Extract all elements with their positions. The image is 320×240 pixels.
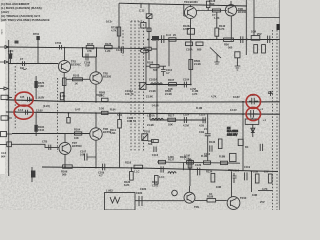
transistor TR10 (227, 197, 240, 210)
svg-text:C115: C115 (199, 113, 206, 117)
capacitor TP2 (26, 110, 32, 115)
svg-text:R737: R737 (87, 42, 94, 46)
wire R106 stub (146, 65, 166, 67)
svg-text:C920: C920 (136, 191, 143, 195)
capacitor C7 curve (23, 68, 27, 69)
svg-text:1K: 1K (209, 192, 212, 196)
wire left input vertical (8, 40, 10, 176)
resistor R135 (255, 174, 259, 183)
transistor TR7 (59, 142, 71, 154)
resistor R169 (63, 165, 73, 168)
node dot (246, 39, 248, 41)
capacitor C169 (86, 54, 88, 61)
svg-text:560: 560 (62, 173, 67, 177)
ground symbol 2 (214, 54, 219, 64)
svg-text:4.55: 4.55 (199, 124, 205, 128)
capacitor C130 (161, 35, 164, 43)
paper background (0, 0, 280, 210)
svg-text:21.9K: 21.9K (194, 62, 201, 66)
svg-text:R107: R107 (168, 78, 175, 82)
wire TR4 emitter up (190, 5, 192, 7)
capacitor C7 (20, 61, 27, 66)
svg-text:P102: P102 (144, 130, 151, 134)
resistor R702 (9, 54, 13, 59)
svg-text:25V: 25V (257, 32, 262, 36)
resistor R140 (145, 47, 151, 50)
wire main bus B+ (6, 100, 280, 102)
svg-text:(0.22): (0.22) (43, 104, 50, 108)
svg-text:R.84: R.84 (110, 108, 116, 112)
svg-text:(AB TWO) VOLUME) PUISSANCE: (AB TWO) VOLUME) PUISSANCE (1, 18, 50, 22)
tiny component labels (1, 0, 273, 209)
resistor R110 label box (152, 140, 159, 143)
capacitor C121b (161, 166, 163, 172)
wire main bus B- (6, 112, 280, 114)
resistor R134 (211, 173, 215, 182)
svg-text:R.1M: R.1M (201, 154, 207, 158)
node junction x38 (37, 40, 39, 64)
capacitor C120 (197, 168, 199, 176)
svg-text:C113: C113 (152, 153, 159, 157)
capacitor TP3 (249, 98, 258, 105)
dashed shield lines center (15, 21, 277, 210)
resistor R141 series (169, 38, 176, 41)
connector box J4 (1, 116, 8, 120)
svg-text:1.2K: 1.2K (105, 49, 111, 53)
capacitor C118 (233, 173, 237, 183)
svg-text:C114: C114 (183, 113, 190, 117)
resistor R581 series bus2 (102, 111, 109, 114)
svg-text:500: 500 (153, 68, 158, 72)
svg-text:R118: R118 (125, 161, 132, 165)
wire TR5 base link (66, 78, 90, 80)
svg-text:10M: 10M (251, 30, 256, 34)
box C28 (235, 52, 240, 58)
wire TR6 collector chain (190, 40, 192, 85)
svg-text:BC550: BC550 (103, 75, 112, 79)
svg-text:R106: R106 (147, 61, 154, 65)
svg-text:L101A: L101A (147, 114, 155, 118)
svg-text:R.8M: R.8M (219, 155, 225, 159)
svg-text:BC550C: BC550C (71, 63, 81, 67)
red annotation ellipse left top (15, 92, 33, 106)
svg-text:C.12: C.12 (139, 9, 145, 13)
wire stub (140, 3, 142, 8)
capacitor C114 (184, 117, 186, 123)
svg-text:R105: R105 (73, 74, 80, 78)
right edge rule (278, 0, 280, 210)
svg-text:8.2K: 8.2K (124, 183, 130, 187)
dashed line C (134, 21, 136, 151)
svg-text:S 2M: S 2M (0, 29, 2, 34)
svg-text:10M: 10M (252, 193, 257, 197)
capacitor C116 (210, 145, 212, 151)
wire mid feed vertical (148, 18, 150, 60)
svg-text:C7B: C7B (42, 140, 47, 144)
resistor R128 (207, 1, 210, 7)
connector J5 (0, 144, 7, 146)
svg-text:25V: 25V (264, 170, 269, 174)
switch box S1 (152, 36, 159, 41)
resistor R136 (268, 174, 272, 183)
capacitor C115 (203, 117, 205, 123)
svg-text:C344: C344 (38, 128, 45, 132)
capacitor TP1 (28, 97, 34, 102)
svg-text:150K: 150K (38, 84, 44, 88)
svg-text:11.0: 11.0 (166, 33, 171, 37)
resistor R58A (186, 42, 193, 46)
resistor R584 (189, 60, 193, 70)
wire R111 stub (119, 114, 121, 168)
transistor TR3 (58, 60, 70, 72)
capacitor C171 below bus2 (68, 113, 70, 117)
resistor R111 (118, 120, 122, 129)
capacitor C1B (205, 114, 211, 161)
svg-text:C10A: C10A (186, 48, 193, 52)
wire TR4 base left (184, 4, 187, 16)
wire TR7 emitter (64, 154, 66, 167)
svg-text:R125: R125 (105, 42, 112, 46)
dashed line right B (276, 30, 278, 210)
wire R142 vertical (216, 12, 218, 40)
wire mid vertical (156, 41, 158, 120)
svg-text:4.7: 4.7 (166, 71, 170, 75)
svg-text:R134: R134 (206, 170, 213, 174)
svg-text:R104: R104 (74, 128, 81, 132)
wire TR3 collector (64, 48, 66, 61)
resistor R117 (168, 118, 176, 121)
svg-text:C104: C104 (183, 78, 190, 82)
scan shading blotches (0, 3, 285, 205)
capacitor C121 (121, 47, 123, 54)
bottom box L903 (105, 193, 136, 211)
svg-text:10M: 10M (216, 185, 221, 189)
resistor R125 (105, 46, 113, 49)
svg-text:R117: R117 (168, 114, 175, 118)
capacitor C25 (241, 36, 243, 43)
svg-text:1.1C: 1.1C (134, 170, 140, 174)
wire TR8 collector (95, 114, 97, 128)
svg-text:R133: R133 (209, 140, 216, 144)
dashed line left small (14, 66, 16, 130)
resistor R189 (207, 199, 216, 202)
capacitor C27 (268, 36, 270, 43)
resistor R103b (60, 93, 63, 100)
wire interstage (196, 10, 226, 12)
trimmer P101 (140, 83, 146, 90)
transistor TR6 (225, 5, 236, 16)
svg-text:C161: C161 (152, 184, 159, 188)
svg-text:0.5W: 0.5W (183, 27, 190, 31)
svg-text:4.7K: 4.7K (211, 95, 217, 99)
svg-text:10M: 10M (253, 170, 258, 174)
transistor TR5 (90, 72, 102, 84)
svg-text:1.1C: 1.1C (159, 175, 165, 179)
wire R128 stub (207, 8, 209, 11)
wire upper-right rail (151, 40, 280, 50)
resistor R139b (204, 161, 211, 164)
svg-text:1M: 1M (20, 66, 24, 70)
node dot (118, 46, 120, 48)
wire right drop (251, 172, 253, 193)
svg-text:21.9K: 21.9K (165, 92, 172, 96)
svg-text:4.7: 4.7 (99, 174, 103, 178)
svg-text:12.2: 12.2 (18, 108, 24, 112)
svg-text:500: 500 (148, 142, 153, 146)
node dot (190, 84, 192, 86)
transistor TR9 (184, 192, 195, 203)
resistor R129b (196, 42, 203, 46)
wire lower-left rail (12, 133, 90, 135)
dashed line E (143, 21, 145, 151)
svg-text:D4: D4 (245, 145, 249, 149)
inductor L104 (168, 172, 176, 174)
capacitor C703 (60, 45, 62, 50)
svg-text:C920: C920 (140, 187, 147, 191)
svg-text:C118: C118 (233, 169, 240, 173)
resistor R107 (169, 83, 177, 86)
wire stub bottom right (258, 190, 272, 192)
wire TR4 collector down (190, 18, 192, 39)
svg-text:R701: R701 (33, 32, 40, 36)
wire TR10 collector (231, 172, 233, 197)
tick mark (268, 91, 273, 96)
svg-text:25V: 25V (260, 200, 265, 204)
box RL1 (245, 119, 259, 124)
label mark (15, 41, 19, 44)
resistor R1B0 (155, 176, 159, 185)
wire upper-left rail (6, 47, 145, 49)
capacitor C109 (103, 164, 105, 171)
left margin tiny marks (0, 29, 2, 34)
connector J6 (1, 132, 7, 137)
svg-text:21.9K: 21.9K (149, 89, 156, 93)
wire to TR10 (216, 199, 227, 201)
capacitor C920 (139, 196, 142, 206)
resistor R142 (215, 28, 219, 36)
red annotation ellipse right bottom (246, 107, 260, 120)
svg-text:TR10: TR10 (240, 196, 247, 200)
transistor TR8 (90, 128, 102, 140)
wire TR9 out (195, 200, 207, 202)
wire mid branch lower (150, 119, 206, 121)
wire cap branch (83, 48, 97, 58)
svg-text:12.0V: 12.0V (230, 108, 237, 112)
resistor R104 (74, 132, 81, 135)
resistor R737 (86, 46, 94, 49)
svg-text:5.50: 5.50 (99, 107, 105, 111)
box D4 (238, 139, 243, 145)
svg-text:C119: C119 (244, 165, 251, 169)
ground symbol (235, 58, 241, 70)
svg-text:1.1K: 1.1K (184, 157, 190, 161)
wire TR5 collector (95, 57, 97, 72)
capacitor C113 (154, 147, 156, 153)
capacitor C110 (161, 66, 166, 76)
connector ring (172, 190, 178, 196)
svg-text:TR9: TR9 (194, 205, 199, 209)
diode D3 (251, 124, 255, 137)
transistor TR4 (185, 7, 197, 19)
node dot TR6c (230, 39, 232, 41)
svg-text:C103A: C103A (149, 78, 157, 82)
box TP5 (147, 28, 151, 32)
svg-text:C7: C7 (20, 57, 24, 61)
wire diag (210, 48, 221, 59)
svg-text:10K: 10K (8, 52, 13, 56)
svg-text:10M 25V: 10M 25V (227, 132, 238, 136)
wire top rail (119, 3, 247, 6)
svg-text:16.8V: 16.8V (38, 96, 45, 100)
capacitor C123 (260, 144, 262, 151)
capacitor C107 (85, 154, 97, 161)
connector J1 (0, 46, 9, 49)
dashed line right A (272, 30, 274, 210)
wire TR3 emitter (62, 73, 64, 102)
wire bottom bus (42, 167, 278, 172)
capacitor C119 (245, 172, 247, 180)
wire R575 stub (35, 76, 37, 99)
wire TR9 collector (189, 186, 191, 192)
capacitor C104 (184, 82, 191, 88)
wire trimmer vertical (145, 49, 147, 85)
capacitor TP4 (248, 110, 258, 118)
svg-text:1.2K: 1.2K (214, 16, 220, 20)
resistor R137 (159, 160, 166, 163)
branch y162 (157, 162, 240, 170)
svg-text:10M 7C: 10M 7C (127, 119, 136, 123)
electrolytic C108 (31, 167, 33, 182)
node dot (147, 39, 149, 41)
connector box J3 (1, 95, 8, 99)
svg-text:1300: 1300 (168, 155, 174, 159)
svg-text:21.9K: 21.9K (146, 95, 153, 99)
svg-text:R1B0: R1B0 (152, 180, 159, 184)
wire R702 stub (9, 50, 11, 64)
svg-text:10K: 10K (168, 123, 173, 127)
svg-text:BC160: BC160 (238, 10, 247, 14)
resistor R133 (218, 139, 222, 149)
svg-text:C703: C703 (55, 41, 62, 45)
wire right bus drop (242, 102, 244, 171)
dashed line A (122, 30, 124, 56)
svg-text:680: 680 (197, 48, 202, 52)
svg-text:560: 560 (228, 46, 233, 50)
svg-text:C121: C121 (116, 48, 123, 52)
wire R738 vertical (118, 3, 120, 47)
resistor R575 (34, 81, 37, 88)
wire to TR7 base (11, 144, 59, 147)
svg-text:4.7K: 4.7K (219, 27, 225, 31)
inductor L101 (151, 83, 163, 85)
wire R120 stub (130, 168, 132, 172)
svg-text:165: 165 (20, 95, 25, 99)
svg-text:1K: 1K (75, 82, 78, 86)
electrolytic C26 (251, 36, 260, 41)
resistor R580 series bus1 (102, 98, 109, 101)
corner blob (277, 24, 281, 30)
wire mid branch upper (146, 84, 191, 86)
resistor R132 (262, 45, 266, 53)
svg-text:12.6V: 12.6V (36, 109, 43, 113)
connector J2b (0, 61, 8, 64)
svg-text:R.1M: R.1M (196, 106, 202, 110)
trimmer P102 (142, 134, 148, 141)
resistor R184 (34, 125, 37, 132)
trimmer P103 (146, 14, 152, 19)
svg-text:0.47: 0.47 (75, 108, 81, 112)
resistor R127 (212, 9, 220, 12)
svg-text:TR4 BC360: TR4 BC360 (184, 0, 198, 4)
svg-text:4.7K: 4.7K (192, 92, 198, 96)
resistor R118 (134, 165, 143, 168)
red annotation ellipse left bottom (14, 105, 33, 119)
wire TR6 to right (237, 9, 247, 11)
wire R184 stub (35, 113, 37, 136)
text block DC (227, 126, 239, 136)
dashed line left tone (57, 78, 59, 152)
top-left notes text block (1, 2, 50, 22)
resistor R138 (187, 161, 194, 164)
svg-text:4.7M: 4.7M (183, 124, 189, 128)
svg-text:10K: 10K (74, 136, 79, 140)
svg-text:904: 904 (1, 155, 6, 159)
resistor R701 (36, 36, 39, 40)
capacitor C7B (49, 145, 51, 150)
resistor R126A (187, 29, 194, 35)
resistor R131 (254, 45, 258, 53)
box aux (141, 23, 146, 29)
connector J2 (0, 87, 8, 90)
svg-text:5.6K: 5.6K (110, 131, 116, 135)
svg-text:10K 7C: 10K 7C (125, 92, 134, 96)
wire TR8 emitter (95, 140, 97, 166)
dashed line D (138, 21, 140, 151)
svg-text:10M: 10M (80, 153, 85, 157)
svg-text:41.6: 41.6 (1, 151, 7, 155)
left margin white strip (0, 22, 5, 174)
svg-text:1.0K: 1.0K (60, 94, 66, 98)
wire right vertical 2 (253, 0, 255, 36)
dashed top bar (131, 20, 144, 22)
svg-text:4.7K: 4.7K (262, 187, 268, 191)
wire TP4 drop (251, 118, 253, 119)
svg-text:16.8V: 16.8V (233, 95, 240, 99)
svg-text:390: 390 (210, 2, 215, 6)
wire right mid vertical (168, 40, 170, 67)
wire TR6 collector (230, 16, 232, 40)
resistor R129 (188, 160, 192, 168)
svg-text:47K: 47K (87, 49, 92, 53)
resistor R106 (150, 65, 159, 68)
inductor L102 (152, 118, 164, 120)
resistor R56 (224, 38, 234, 41)
resistor R738 (117, 27, 120, 36)
lamp symbol (140, 49, 148, 53)
svg-text:75P: 75P (85, 64, 90, 68)
svg-text:L 903: L 903 (106, 189, 113, 193)
wire bottom link (135, 200, 184, 202)
svg-text:4.7K: 4.7K (111, 29, 117, 33)
dashed line B (130, 21, 132, 151)
wire TR5 emitter (95, 84, 97, 101)
box C117 (230, 153, 236, 161)
wire TR9 feed (189, 158, 191, 186)
resistor R140b (221, 161, 228, 164)
wire TR6 emitter (230, 1, 232, 5)
svg-text:R560: R560 (99, 91, 106, 95)
wire TR7 collector (64, 134, 66, 143)
